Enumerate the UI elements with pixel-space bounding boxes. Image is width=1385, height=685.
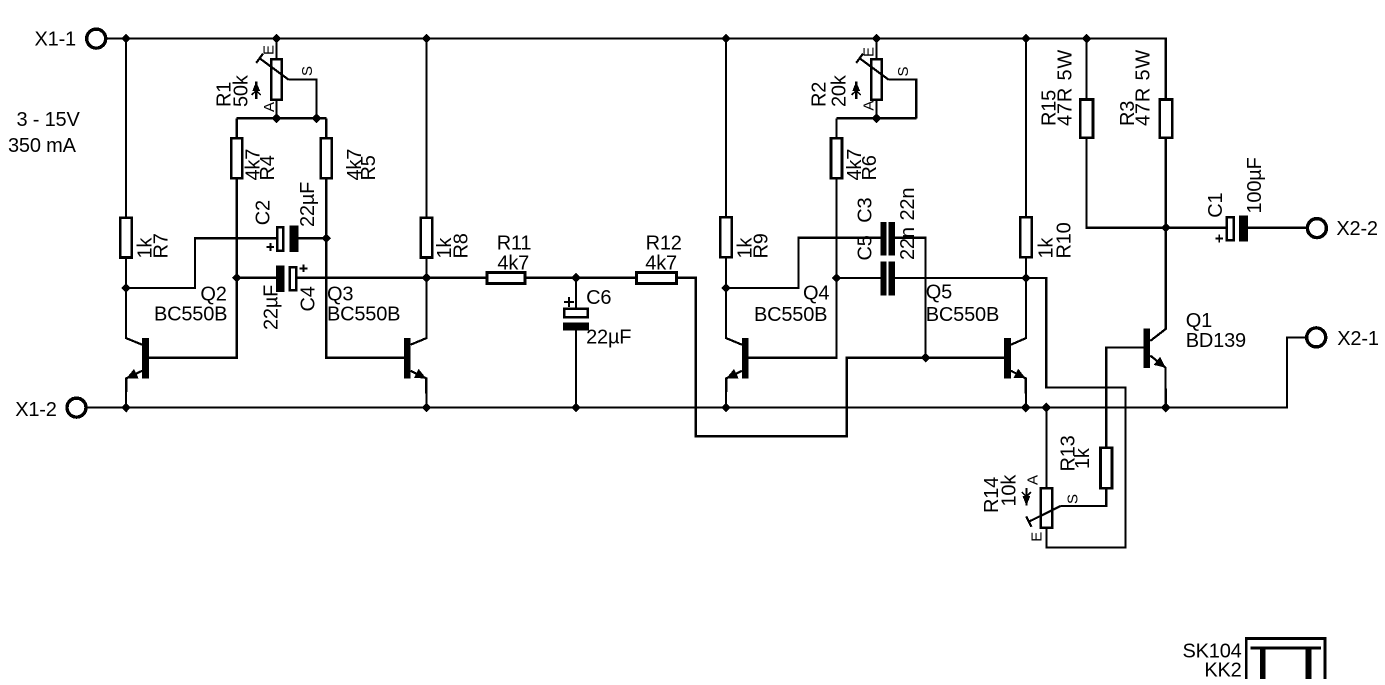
junction top rail x=276.5	[272, 34, 282, 44]
junction R7 Q2 collector	[121, 283, 131, 293]
wire R7 to node Q2 collector	[125, 258, 127, 288]
resistor R5	[321, 138, 332, 178]
wire C2 right to R5 node	[298, 237, 326, 239]
resistor R8	[421, 218, 433, 258]
transistor Q5 body bar	[1004, 338, 1011, 379]
junction R9 Q4 collector	[721, 283, 731, 293]
wire C5 right to R10 node	[895, 277, 1026, 279]
transistor Q1 body bar	[1144, 328, 1151, 368]
transistor Q2 body bar	[142, 338, 149, 379]
transistor Q4 emitter	[726, 371, 742, 408]
transistor Q2 collector	[126, 288, 142, 345]
svg-text:R5: R5	[358, 155, 380, 180]
svg-text:47R 5W: 47R 5W	[1133, 49, 1155, 126]
wire bus to R5	[325, 118, 327, 137]
svg-text:Q1: Q1	[1186, 310, 1212, 332]
heatsink fin leg C	[1306, 648, 1312, 679]
junction bottom rail x=576	[571, 403, 581, 413]
potentiometer R14 body	[1041, 488, 1052, 527]
svg-text:R7: R7	[151, 233, 173, 258]
junction top rail x=426.5	[422, 34, 432, 44]
junction R10 Q5 collector	[1021, 273, 1031, 283]
svg-text:20k: 20k	[829, 74, 851, 107]
svg-text:50k: 50k	[231, 74, 253, 107]
wire rail to R9	[725, 39, 727, 217]
wire top supply rail X1-1 to R3	[108, 39, 1166, 99]
svg-text:S: S	[299, 66, 316, 76]
wire X1-1 rail to R7	[125, 39, 127, 217]
capacitor C1 positive plate	[1227, 217, 1234, 240]
terminal X2-2	[1307, 219, 1326, 238]
wire R8 to node	[425, 258, 427, 278]
transistor Q4 collector	[726, 288, 742, 345]
svg-text:BC550B: BC550B	[926, 304, 999, 326]
svg-text:4k7: 4k7	[645, 252, 677, 274]
svg-text:47R 5W: 47R 5W	[1055, 49, 1077, 126]
potentiometer R1 wiper tee	[256, 54, 263, 63]
capacitor C3 right plate	[889, 222, 895, 256]
potentiometer R2 body	[871, 59, 882, 99]
wire rail to R8	[425, 39, 427, 217]
wire node to C6	[575, 278, 577, 308]
transistor Q3 emitter	[411, 371, 427, 408]
wire node Q4C to C3 left	[726, 238, 880, 288]
junction bottom rail x=726	[721, 403, 731, 413]
svg-text:BC550B: BC550B	[154, 304, 227, 326]
heatsink outer right leg	[1324, 637, 1327, 679]
transistor Q4 body bar	[742, 338, 749, 379]
capacitor C6 negative plate	[563, 322, 589, 330]
wire R13 to R14 S	[1061, 489, 1107, 506]
transistor Q1 emitter	[1150, 356, 1166, 408]
svg-text:X2-2: X2-2	[1336, 218, 1378, 240]
wire C6 node to R12	[576, 277, 636, 279]
svg-text:A: A	[1025, 475, 1042, 485]
heatsink fin leg B	[1260, 648, 1266, 679]
junction top rail x=1086.6	[1082, 34, 1092, 44]
wire R2 A to bus	[875, 101, 877, 119]
junction R1 S	[312, 113, 322, 123]
svg-text:R6: R6	[859, 155, 881, 180]
svg-text:22n: 22n	[897, 188, 919, 221]
wire R2 bus R6 to S	[837, 117, 917, 119]
junction bottom rail x=426.5	[422, 403, 432, 413]
label C4 plus	[300, 264, 308, 272]
svg-text:1k: 1k	[1072, 447, 1094, 469]
junction top rail x=1026	[1021, 34, 1031, 44]
potentiometer R2 arrow	[852, 82, 861, 100]
wire rail to R14 A	[1045, 408, 1047, 488]
svg-text:KK2: KK2	[1204, 659, 1241, 681]
junction bottom rail x=126	[121, 403, 131, 413]
terminal X2-1	[1307, 328, 1326, 347]
heatsink SK104 KK2 top bar	[1245, 637, 1327, 640]
svg-text:22µF: 22µF	[586, 327, 631, 349]
capacitor C5 left plate	[880, 261, 886, 295]
transistor Q5 emitter arrow	[1014, 369, 1026, 379]
svg-text:C3: C3	[855, 197, 877, 222]
wire rail to R1 E	[275, 39, 277, 59]
svg-text:22µF: 22µF	[260, 285, 282, 330]
potentiometer R2 wiper diagonal	[860, 58, 889, 79]
junction R8 R11 node	[422, 273, 432, 283]
transistor Q1 emitter arrow	[1154, 357, 1166, 368]
svg-text:Q2: Q2	[200, 283, 226, 305]
capacitor C3 left plate	[880, 222, 886, 256]
svg-text:C1: C1	[1205, 193, 1227, 218]
svg-text:R2: R2	[809, 82, 831, 107]
junction bottom rail x=1025.8	[1021, 403, 1031, 413]
transistor Q4 emitter arrow	[726, 369, 738, 378]
wire R11 to C6 node	[526, 277, 576, 279]
junction R5 C2 node	[321, 233, 331, 243]
junction bottom rail x=1046.2	[1041, 403, 1051, 413]
capacitor C5 right plate	[889, 261, 895, 295]
resistor R15	[1080, 100, 1093, 138]
potentiometer R1 wiper diagonal	[260, 58, 289, 79]
svg-text:X1-2: X1-2	[15, 399, 57, 421]
wire bus to R4	[236, 118, 238, 137]
svg-text:22µF: 22µF	[297, 182, 319, 227]
transistor Q5 collector	[1011, 278, 1026, 345]
wire C3 right to Q5 base	[895, 238, 926, 358]
svg-text:R10: R10	[1054, 222, 1076, 258]
wire R9 to node Q4 collector	[725, 258, 727, 288]
wire R1 bus R4 to R5	[237, 117, 327, 119]
wire C4 right to R8 node	[298, 277, 427, 279]
svg-text:C2: C2	[253, 200, 275, 225]
svg-text:A: A	[861, 101, 878, 111]
potentiometer R1 body	[271, 59, 282, 99]
junction R1 A	[272, 113, 282, 123]
wire R4 node to C4 left	[237, 277, 276, 279]
wire node to C1	[1166, 227, 1226, 229]
svg-text:R12: R12	[646, 232, 682, 254]
wire R3 to Q1 collector	[1165, 139, 1167, 329]
wire R1 S wiper	[289, 80, 317, 119]
svg-text:C5: C5	[855, 235, 877, 260]
junction R4 C4 node	[232, 273, 242, 283]
svg-text:4k7: 4k7	[497, 252, 529, 274]
resistor R9	[720, 217, 732, 257]
junction top rail x=726	[721, 34, 731, 44]
transistor Q1 collector	[1150, 139, 1166, 342]
terminal X1-1	[87, 29, 106, 48]
svg-text:E: E	[261, 45, 278, 55]
junction top rail x=876.5	[872, 34, 882, 44]
svg-text:BD139: BD139	[1186, 330, 1246, 352]
label C6 plus	[564, 297, 574, 307]
svg-text:S: S	[1065, 494, 1082, 504]
heatsink inner web line	[1250, 647, 1321, 650]
svg-text:X1-1: X1-1	[35, 29, 77, 51]
capacitor C2 positive plate	[277, 227, 283, 251]
svg-text:100µF: 100µF	[1244, 157, 1266, 213]
potentiometer R14 wiper tee	[1026, 517, 1031, 527]
wire R12 to Q5 base loop	[678, 278, 1005, 436]
svg-text:R8: R8	[451, 233, 473, 258]
heatsink outer left leg	[1245, 637, 1248, 679]
wire R2 S wiper	[889, 80, 917, 119]
junction R2 A	[872, 113, 882, 123]
resistor R7	[120, 218, 132, 258]
resistor R12	[637, 273, 677, 284]
svg-text:E: E	[861, 47, 878, 57]
svg-text:C6: C6	[586, 287, 611, 309]
svg-text:3 - 15V: 3 - 15V	[17, 109, 81, 131]
wire R6 to Q4 base	[749, 179, 837, 358]
svg-text:10k: 10k	[999, 474, 1021, 507]
resistor R13	[1100, 448, 1112, 489]
svg-text:C4: C4	[297, 286, 319, 311]
capacitor C1 negative plate	[1239, 215, 1248, 241]
junction top rail x=126	[121, 34, 131, 44]
potentiometer R14 wiper diagonal	[1029, 506, 1061, 522]
junction C6 top	[571, 273, 581, 283]
svg-text:350 mA: 350 mA	[8, 135, 77, 157]
transistor Q2 emitter	[126, 371, 142, 408]
label C2 plus	[266, 243, 274, 251]
svg-text:R4: R4	[257, 155, 279, 180]
terminal X1-2	[67, 398, 86, 417]
svg-text:R9: R9	[751, 233, 773, 258]
capacitor C2 negative plate	[290, 226, 299, 252]
wire R1 A to bus	[275, 101, 277, 119]
wire node to R11	[427, 277, 487, 279]
wire C1 to X2-2	[1248, 227, 1308, 229]
svg-text:A: A	[261, 102, 278, 112]
resistor R4	[231, 138, 242, 178]
svg-text:Q3: Q3	[327, 283, 353, 305]
wire R5 to Q3 base	[326, 179, 404, 358]
svg-text:R11: R11	[497, 232, 532, 254]
svg-text:BC550B: BC550B	[754, 304, 827, 326]
wire rail to R10	[1025, 39, 1027, 217]
transistor Q3 body bar	[404, 338, 411, 379]
svg-text:Q4: Q4	[803, 282, 829, 304]
svg-text:E: E	[1029, 532, 1046, 542]
transistor Q3 collector	[411, 278, 427, 345]
transistor Q3 emitter arrow	[414, 369, 426, 379]
wire Q1 base to R13	[1106, 348, 1143, 448]
svg-text:BC550B: BC550B	[327, 304, 400, 326]
transistor Q5 emitter	[1011, 371, 1026, 408]
wire R10 to node	[1025, 258, 1027, 278]
capacitor C4 negative plate	[276, 266, 285, 292]
capacitor C4 positive plate	[290, 267, 297, 290]
resistor R10	[1020, 217, 1032, 257]
wire bottom ground rail X1-2 to X2-1	[87, 337, 1307, 407]
potentiometer R1 arrow	[252, 82, 261, 100]
wire R15 to C1 node	[1087, 139, 1166, 228]
wire C6 to ground rail	[575, 331, 577, 408]
junction Q1 emitter rail	[1161, 403, 1171, 413]
resistor R11	[487, 273, 525, 284]
label C1 plus	[1215, 235, 1223, 243]
wire R10 node to R14 E	[1026, 278, 1126, 547]
wire rail to R2 E	[875, 39, 877, 59]
wire R6 node to C5 left	[837, 277, 881, 279]
wire R4 to Q2 base	[149, 179, 237, 358]
wire node Q2C to C2 left	[126, 238, 277, 288]
potentiometer R14 arrow	[1022, 488, 1031, 506]
resistor R3	[1160, 100, 1173, 138]
junction Q5 base C3	[921, 353, 931, 363]
svg-text:X2-1: X2-1	[1337, 328, 1379, 350]
potentiometer R2 wiper tee	[856, 54, 863, 63]
junction C1 node	[1161, 223, 1171, 233]
svg-text:S: S	[895, 67, 912, 77]
wire rail to R15	[1085, 39, 1087, 99]
resistor R6	[831, 138, 842, 178]
svg-text:Q5: Q5	[926, 282, 952, 304]
transistor Q2 emitter arrow	[126, 369, 138, 378]
capacitor C6 positive plate	[564, 309, 588, 318]
wire bus to R6	[835, 118, 837, 137]
svg-text:22n: 22n	[897, 227, 919, 260]
junction R6 C5 node	[832, 273, 842, 283]
